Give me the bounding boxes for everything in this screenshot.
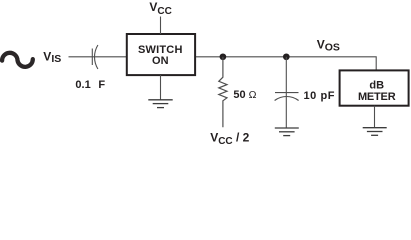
svg-text:SWITCH: SWITCH: [138, 44, 183, 56]
svg-text:10 pF: 10 pF: [304, 90, 335, 102]
capacitor 10 pF : straight plate: [275, 92, 299, 94]
junction node at resistor: [220, 53, 227, 60]
ground under 10 pF capacitor: [275, 128, 299, 136]
wire VCC to switch box: [160, 17, 162, 35]
svg-text:F: F: [98, 79, 105, 91]
switch box: [127, 34, 195, 75]
ground under switch box: [148, 100, 172, 108]
svg-text:50: 50: [233, 89, 245, 101]
ground under dB meter: [363, 128, 387, 136]
capacitor 10 pF : lead from junction through to ground: [285, 57, 287, 128]
output wire from switch box to dB meter corner: [196, 57, 376, 71]
wire input to capacitor and on to switch box: [69, 56, 127, 58]
AC source (sine symbol): [2, 53, 33, 67]
svg-text:Ω: Ω: [249, 89, 257, 101]
svg-text:0.1: 0.1: [75, 79, 90, 91]
dB meter box: [340, 70, 409, 105]
wire switch box to ground: [160, 75, 162, 100]
svg-text:dB: dB: [369, 79, 384, 91]
junction node at capacitor: [283, 53, 290, 60]
resistor 50 ohm (zigzag) with leads: [219, 57, 227, 128]
capacitor 0.1 uF : straight plate: [91, 49, 93, 66]
capacitor 10 pF : curved plate: [275, 97, 299, 101]
capacitor 0.1 uF : curved plate: [95, 45, 98, 69]
svg-text:METER: METER: [358, 91, 396, 103]
svg-text:ON: ON: [152, 55, 169, 67]
wire dB meter box to ground: [374, 106, 376, 128]
